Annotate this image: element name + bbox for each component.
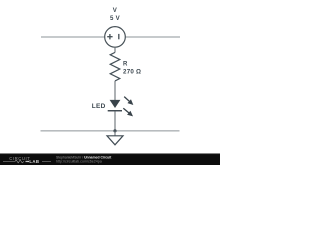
CircuitLab logo	[3, 156, 51, 164]
wire bottom rail	[41, 130, 180, 132]
wire junction to ground	[114, 131, 116, 136]
junction node	[113, 129, 116, 132]
svg-text:R: R	[123, 61, 128, 67]
wire top rail left	[41, 36, 105, 38]
watermark bar	[0, 154, 220, 165]
LED D1 emission arrow 1	[122, 95, 135, 107]
svg-text:⎓LAB: ⎓LAB	[26, 159, 40, 164]
ground	[107, 136, 123, 145]
wire top rail right	[125, 36, 180, 38]
svg-text:5 V: 5 V	[110, 15, 121, 22]
wire source to resistor	[114, 47, 116, 52]
svg-text:270 Ω: 270 Ω	[123, 68, 141, 75]
LED D1 triangle	[110, 100, 121, 108]
LED D1 emission arrow 2	[122, 106, 135, 118]
svg-text:http://circuitlab.com/c6e24pa: http://circuitlab.com/c6e24pa	[56, 159, 102, 163]
voltage source V1	[105, 27, 126, 48]
LED D1 cathode bar	[108, 110, 122, 112]
svg-text:LED: LED	[92, 103, 106, 110]
wire LED to bottom rail	[114, 111, 116, 130]
wire resistor to LED	[114, 81, 116, 101]
resistor R	[110, 52, 120, 81]
